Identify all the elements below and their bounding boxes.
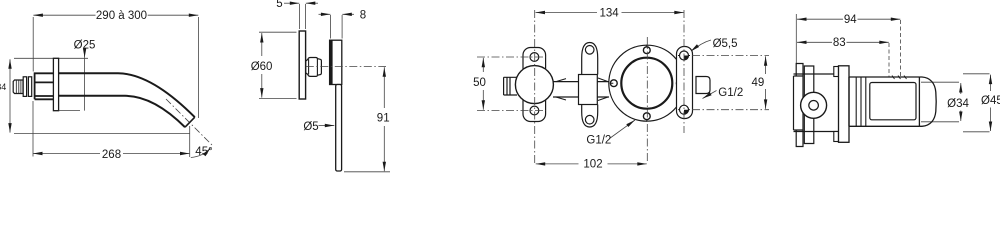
svg-text:G1/2: G1/2 (718, 87, 743, 99)
svg-text:91: 91 (377, 113, 390, 125)
svg-text:Ø5: Ø5 (303, 121, 318, 133)
svg-text:5: 5 (276, 0, 282, 10)
svg-text:268: 268 (102, 149, 121, 161)
svg-text:290 à 300: 290 à 300 (96, 10, 147, 22)
svg-text:8: 8 (360, 9, 366, 21)
svg-text:45°: 45° (195, 146, 212, 158)
svg-text:G1/2: G1/2 (586, 134, 611, 146)
svg-text:94: 94 (844, 14, 857, 26)
svg-text:134: 134 (600, 8, 620, 20)
svg-text:Ø34: Ø34 (947, 98, 969, 110)
svg-text:Ø45: Ø45 (981, 95, 1000, 107)
svg-text:49: 49 (752, 77, 765, 89)
svg-text:84: 84 (0, 82, 6, 92)
svg-text:Ø25: Ø25 (74, 40, 96, 52)
svg-text:Ø60: Ø60 (251, 61, 273, 73)
svg-text:83: 83 (833, 37, 846, 49)
svg-text:50: 50 (473, 77, 486, 89)
svg-text:Ø5,5: Ø5,5 (713, 38, 738, 50)
svg-text:102: 102 (583, 159, 602, 171)
